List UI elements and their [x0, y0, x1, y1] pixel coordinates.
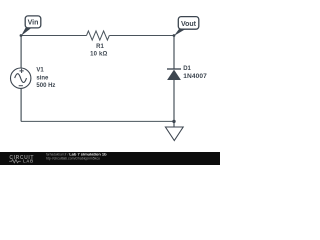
svg-text:R1: R1: [96, 44, 104, 50]
svg-text:10 kΩ: 10 kΩ: [90, 52, 107, 58]
svg-text:D1: D1: [183, 66, 191, 72]
svg-text:500 Hz: 500 Hz: [36, 83, 55, 89]
svg-text:1N4007: 1N4007: [183, 73, 207, 80]
svg-text:htp·//circuitlab.com/c/hablqsn: htp·//circuitlab.com/c/hablqsnm5kcu: [46, 157, 100, 161]
svg-text:Vin: Vin: [28, 20, 39, 27]
svg-text:V1: V1: [36, 68, 44, 74]
svg-text:LAB: LAB: [23, 159, 34, 164]
svg-text:sine: sine: [36, 75, 49, 81]
svg-text:Vout: Vout: [181, 21, 197, 28]
